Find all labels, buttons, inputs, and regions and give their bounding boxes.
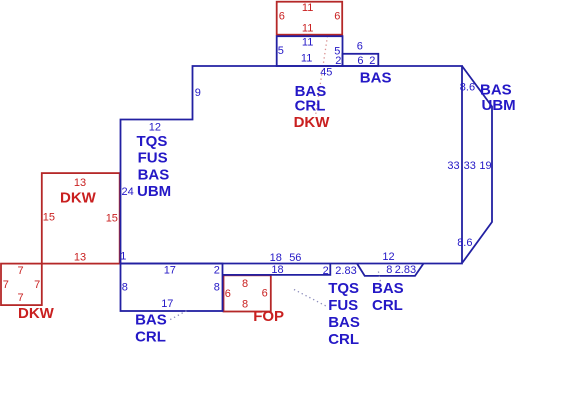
svg-text:7: 7	[3, 279, 9, 291]
main outline	[121, 66, 463, 264]
svg-text:18: 18	[270, 252, 282, 264]
svg-text:FOP: FOP	[253, 308, 284, 325]
svg-text:8: 8	[386, 264, 392, 276]
svg-text:8: 8	[122, 282, 128, 294]
svg-text:CRL: CRL	[372, 297, 403, 314]
svg-text:11: 11	[302, 22, 313, 34]
svg-text:17: 17	[164, 265, 176, 277]
svg-text:UBM: UBM	[482, 97, 516, 114]
red leader dotted to DKW text	[316, 36, 328, 116]
svg-text:8: 8	[214, 282, 220, 294]
svg-text:15: 15	[106, 213, 118, 225]
svg-text:56: 56	[289, 252, 301, 264]
svg-text:BAS: BAS	[138, 166, 170, 183]
blue rect 17 BAS CRL	[121, 264, 223, 312]
blue dotted leader TQS block	[294, 290, 326, 307]
svg-text:33: 33	[464, 160, 476, 172]
svg-text:6: 6	[357, 55, 363, 67]
svg-text:2: 2	[214, 265, 220, 277]
svg-text:UBM: UBM	[137, 183, 171, 200]
svg-text:8: 8	[242, 278, 248, 290]
blue top rect 1	[277, 36, 343, 66]
svg-text:24: 24	[122, 186, 134, 198]
svg-text:13: 13	[74, 252, 86, 264]
svg-text:7: 7	[18, 292, 24, 304]
blue dotted leader BAS CRL bottom-left	[169, 311, 187, 321]
svg-text:19: 19	[479, 160, 491, 172]
svg-text:CRL: CRL	[135, 329, 166, 346]
svg-text:CRL: CRL	[295, 98, 326, 115]
svg-text:7: 7	[34, 279, 40, 291]
svg-text:1: 1	[120, 251, 126, 263]
svg-text:FUS: FUS	[328, 297, 358, 314]
red FOP rect	[224, 275, 271, 311]
svg-text:18: 18	[271, 264, 283, 276]
svg-text:11: 11	[302, 2, 313, 14]
svg-text:12: 12	[149, 122, 161, 134]
svg-text:15: 15	[43, 212, 55, 224]
svg-text:CRL: CRL	[328, 331, 359, 348]
svg-text:FUS: FUS	[138, 150, 168, 167]
svg-text:45: 45	[320, 67, 332, 79]
svg-text:13: 13	[74, 177, 86, 189]
svg-text:6: 6	[279, 11, 285, 23]
svg-text:DKW: DKW	[294, 114, 331, 131]
blue dotted leader trapezoid	[378, 272, 380, 283]
svg-text:2: 2	[335, 55, 341, 67]
svg-text:33: 33	[447, 160, 459, 172]
svg-text:5: 5	[278, 45, 284, 57]
svg-text:6: 6	[225, 288, 231, 300]
svg-text:8: 8	[242, 298, 248, 310]
svg-text:9: 9	[195, 87, 201, 99]
svg-text:8.6: 8.6	[457, 237, 472, 249]
blue strip 18	[223, 264, 331, 275]
red top rect DKW	[277, 2, 343, 35]
svg-text:17: 17	[161, 298, 173, 310]
svg-text:TQS: TQS	[328, 280, 359, 297]
svg-text:12: 12	[382, 251, 394, 263]
svg-text:TQS: TQS	[137, 133, 168, 150]
svg-text:BAS: BAS	[135, 312, 167, 329]
svg-text:6: 6	[334, 11, 340, 23]
svg-text:DKW: DKW	[18, 305, 55, 322]
svg-text:2.83: 2.83	[395, 264, 416, 276]
red small DKW rect bottom-left	[1, 264, 42, 306]
svg-text:BAS: BAS	[328, 314, 360, 331]
svg-text:2: 2	[369, 55, 375, 67]
blue trapezoid BAS CRL	[357, 264, 424, 276]
svg-text:BAS: BAS	[372, 280, 404, 297]
svg-text:DKW: DKW	[60, 190, 97, 207]
svg-text:6: 6	[357, 40, 363, 52]
svg-text:8.6: 8.6	[460, 82, 475, 94]
svg-text:2.83: 2.83	[335, 265, 356, 277]
svg-text:11: 11	[301, 53, 312, 65]
svg-text:BAS: BAS	[360, 70, 392, 87]
svg-text:7: 7	[18, 265, 24, 277]
svg-text:6: 6	[262, 287, 268, 299]
svg-text:11: 11	[302, 36, 313, 48]
red DKW rect left	[42, 173, 120, 264]
blue top rect 2	[343, 54, 379, 66]
svg-text:2: 2	[323, 265, 329, 277]
right strip BAS UBM	[462, 66, 492, 263]
